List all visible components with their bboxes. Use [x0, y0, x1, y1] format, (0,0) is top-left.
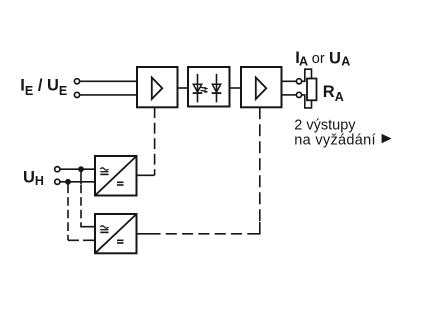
- wire dashed riser to PS2 upper input: [80, 185, 82, 223]
- wire output top: [282, 80, 297, 82]
- photodiode D2: [216, 74, 218, 103]
- wire riser from top supply junction: [80, 169, 82, 184]
- wire output bottom: [282, 94, 297, 96]
- wire dashed PS2 output run: [150, 233, 252, 235]
- terminal supply bottom: [55, 179, 60, 184]
- wire PS2 output solid: [137, 233, 150, 235]
- terminal output top: [296, 79, 301, 84]
- wire dashed riser from bottom supply junction: [67, 185, 69, 236]
- wire supply top: [60, 168, 95, 170]
- arrow marker: [382, 134, 392, 143]
- LED diode D1: [197, 74, 199, 103]
- svg-text:IAorUA: IAorUA: [295, 49, 350, 69]
- svg-text:RA: RA: [323, 83, 344, 104]
- terminal output bottom: [296, 92, 301, 97]
- wire dashed PS2 lower input: [68, 239, 95, 241]
- wire PS2 lower input corner: [67, 236, 69, 241]
- wire load loop bottom: [302, 95, 312, 108]
- junction on top supply wire: [78, 166, 84, 172]
- wire input bottom: [80, 94, 137, 96]
- wire supply bottom: [60, 181, 95, 183]
- junction on bottom supply wire: [65, 179, 71, 185]
- resistor RA: [307, 79, 317, 101]
- wire PS1 output: [137, 174, 155, 176]
- svg-text:2 výstupy: 2 výstupy: [294, 118, 356, 134]
- wire U1 to optocoupler: [178, 87, 189, 89]
- svg-text:UH: UH: [23, 168, 44, 188]
- wire optocoupler to U3: [230, 87, 242, 89]
- op-amp U3 (output amplifier): [241, 67, 282, 107]
- terminal input top: [74, 79, 79, 84]
- wire dashed riser to U3: [259, 107, 261, 222]
- optocoupler U2: [188, 67, 230, 107]
- terminal supply top: [55, 167, 60, 172]
- svg-text:IE / UE: IE / UE: [20, 76, 67, 98]
- wire dashed PS1 to U1: [154, 107, 156, 175]
- wire load loop top: [302, 69, 312, 81]
- op-amp U1 (input amplifier): [137, 67, 178, 107]
- wire PS2 upper input: [81, 223, 95, 227]
- terminal input bottom: [74, 92, 79, 97]
- dc/dc converter PS2: [95, 214, 137, 253]
- wire PS2 output corner: [252, 222, 260, 234]
- light arrows: [201, 87, 209, 94]
- svg-text:na vyžádání: na vyžádání: [294, 132, 376, 148]
- dc/dc converter PS1: [95, 156, 137, 196]
- wire input top: [80, 80, 137, 82]
